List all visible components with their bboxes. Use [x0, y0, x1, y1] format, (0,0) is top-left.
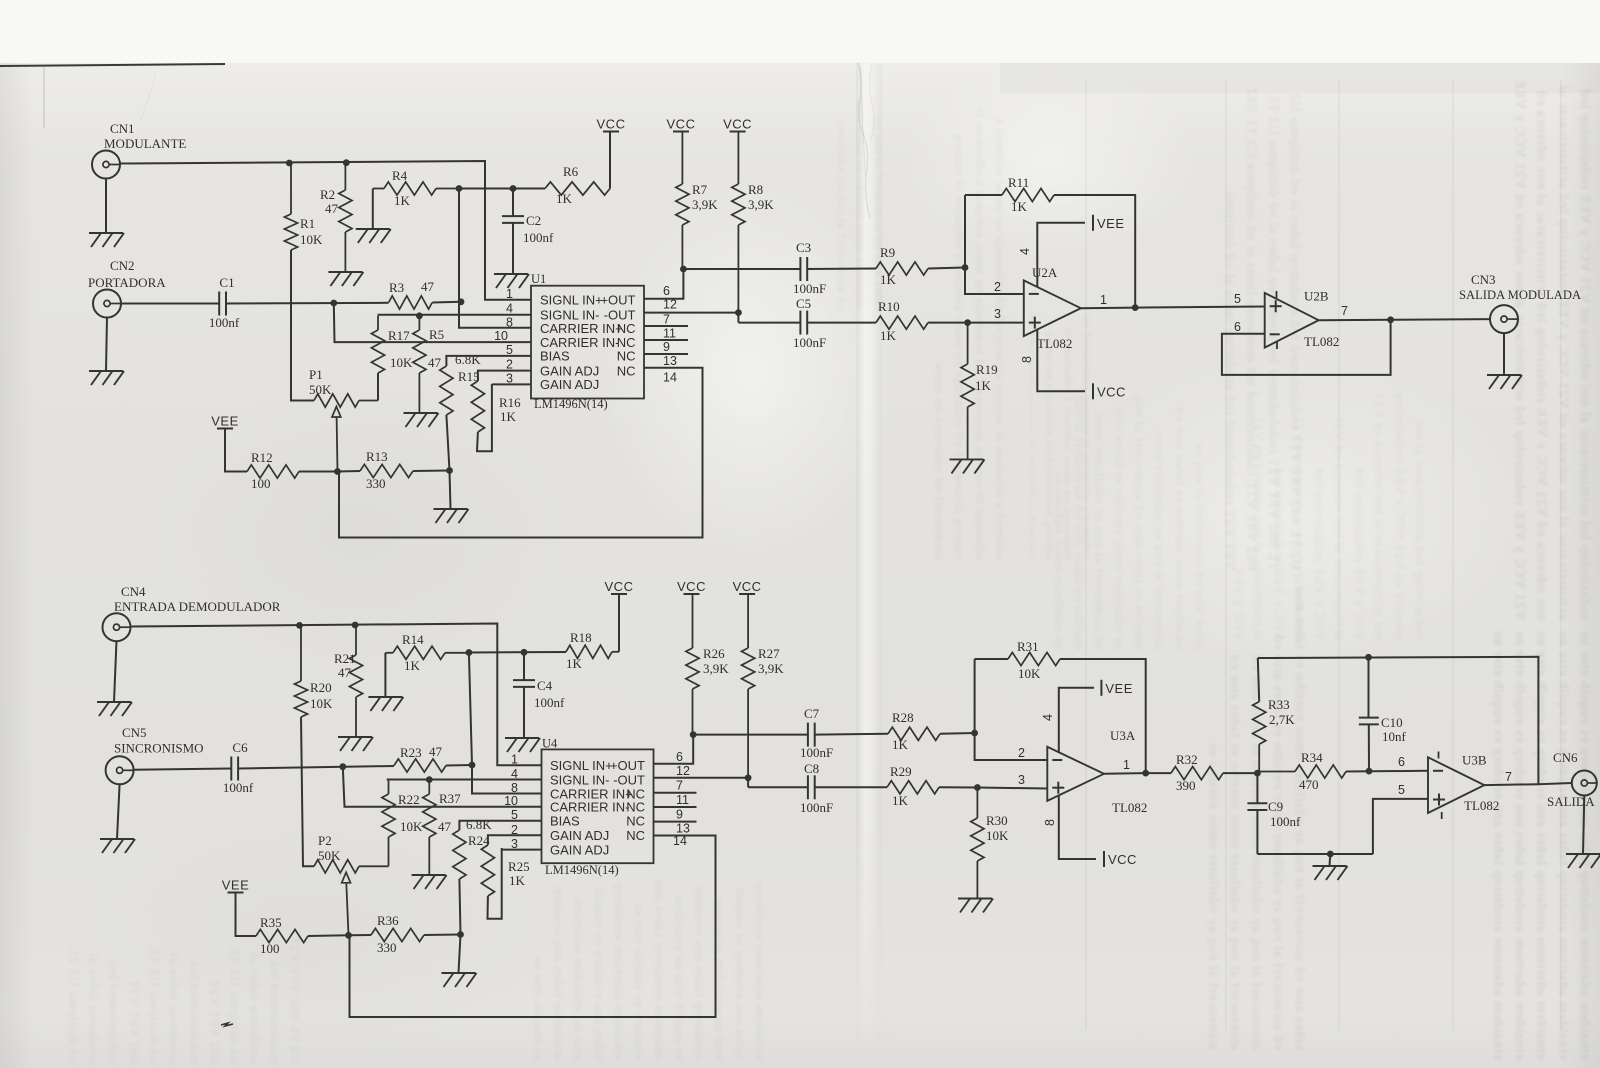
wire U2B feedback [1222, 320, 1391, 375]
label C10 [1381, 715, 1403, 730]
svg-text:3,9K: 3,9K [703, 661, 729, 676]
junction wiper/R12/R13 [334, 468, 341, 475]
label R21 value 47 [338, 665, 352, 680]
U4 pin number 10 [504, 794, 518, 808]
ground at CN3 [1487, 375, 1522, 389]
wire ground lead below R36 [459, 935, 461, 974]
resistor R25 [481, 845, 494, 896]
power VCC above R8 [723, 117, 752, 132]
svg-text:VCC: VCC [1108, 852, 1137, 867]
wire C4 top lead [523, 652, 525, 680]
wire CN5 ground lead [117, 784, 120, 839]
svg-text:+OUT: +OUT [600, 293, 635, 308]
svg-text:1K: 1K [892, 793, 909, 808]
svg-text:GAIN ADJ: GAIN ADJ [540, 377, 599, 392]
label C2 [526, 213, 541, 228]
label R22 value 10K [400, 819, 423, 834]
wire R23 to vertical [446, 764, 472, 767]
svg-text:C8: C8 [804, 761, 819, 776]
label U2A [1032, 265, 1058, 280]
capacitor C10 [1359, 718, 1379, 725]
resistor R15 [440, 366, 453, 415]
U2B pin 5 [1234, 292, 1241, 306]
svg-text:U2A: U2A [1032, 265, 1058, 280]
junction rail/C10 [1365, 654, 1372, 661]
wire feedback up [964, 195, 966, 268]
label R6 [563, 164, 579, 179]
stray pen mark [221, 1023, 233, 1026]
resistor R34 [1257, 765, 1346, 778]
wire U1 pin 6 to C3 line [644, 269, 683, 299]
label R32 [1176, 752, 1198, 767]
wire U2A V- pin to VEE [1037, 223, 1085, 287]
svg-text:CN5: CN5 [122, 725, 147, 740]
svg-text:100: 100 [251, 476, 271, 491]
svg-text:C1: C1 [219, 275, 234, 290]
wire U3A V- pin to VEE [1059, 688, 1094, 753]
resistor R20 [294, 625, 307, 717]
resistor R2 [339, 163, 352, 272]
svg-text:4: 4 [1041, 714, 1055, 721]
potentiometer P1 [314, 394, 378, 407]
wire R18 to VCC [618, 594, 620, 652]
label TL082 U3B [1464, 798, 1499, 813]
U4 row label GAIN ADJ [550, 828, 609, 843]
wire R11 rail right [1054, 195, 1135, 308]
U1 row label CARRIER IN- [540, 335, 619, 350]
svg-text:VEE: VEE [1105, 681, 1133, 696]
ground at C4 [505, 738, 540, 752]
wire C7 line left [693, 734, 808, 736]
wire U4 pin 11 stub [654, 806, 697, 808]
svg-text:1K: 1K [566, 656, 583, 671]
resistor R18 [566, 645, 619, 658]
power VCC above R18 [605, 579, 634, 594]
svg-text:GAIN ADJ: GAIN ADJ [550, 828, 609, 843]
ground at R14 [368, 697, 403, 711]
label R17 [388, 328, 410, 343]
U1 pin number 11 [663, 327, 676, 341]
svg-text:6: 6 [1398, 755, 1405, 769]
wire R15 bottom [446, 415, 449, 471]
label R28 [892, 710, 914, 725]
wire R3 to vertical [432, 301, 461, 304]
svg-text:R33: R33 [1268, 697, 1290, 712]
svg-text:8: 8 [511, 781, 518, 795]
U4 row label +OUT [610, 758, 645, 773]
wire U1 pin 2 to R16 [478, 371, 531, 381]
junction R36/R24/ground [457, 931, 464, 938]
label CN2 [110, 258, 135, 273]
label C6 [232, 740, 248, 755]
svg-text:100nF: 100nF [793, 335, 826, 350]
label R9 value 1K [880, 272, 897, 287]
label R24 [468, 833, 490, 848]
svg-text:R6: R6 [563, 164, 579, 179]
ground at CN4 [97, 702, 132, 716]
wire U3A output [1104, 772, 1171, 775]
wire C9 top lead [1256, 773, 1258, 803]
label R2 value 47 [325, 201, 339, 216]
junction rail/pin8 branch b [466, 649, 473, 656]
U4 pin number 9 [676, 808, 683, 822]
label R1 value 10K [300, 232, 323, 247]
U1 row label SIGNL IN+ [540, 293, 603, 308]
ground at R36/R24 [442, 973, 477, 987]
svg-text:R19: R19 [976, 362, 998, 377]
svg-text:330: 330 [366, 476, 386, 491]
svg-text:R14: R14 [402, 632, 424, 647]
svg-text:CN1: CN1 [110, 121, 135, 136]
wire U1 pin 11 stub [644, 339, 688, 341]
U1 pin number 14 [663, 371, 677, 385]
wire C10 bottom lead [1368, 725, 1370, 772]
wire rail to U4 pin 8 [469, 653, 542, 794]
svg-text:7: 7 [676, 779, 683, 793]
label R17 value 10K [390, 355, 413, 370]
U4 pin number 2 [511, 823, 518, 837]
label TL082 U3A [1112, 800, 1147, 815]
svg-text:LM1496N(14): LM1496N(14) [545, 863, 619, 877]
svg-text:NC: NC [626, 800, 645, 815]
svg-text:10K: 10K [400, 819, 423, 834]
junction R34/C10 [1366, 768, 1373, 775]
label P1 value 50K [309, 382, 332, 397]
U4 row label -OUT [613, 772, 645, 787]
label U4 [542, 737, 558, 751]
resistor R3 [389, 296, 433, 309]
ground at R30 [958, 899, 993, 913]
capacitor C7 [808, 723, 815, 747]
label R26 value 3,9K [703, 661, 729, 676]
svg-text:7: 7 [1505, 770, 1512, 784]
svg-text:BIAS: BIAS [550, 814, 580, 829]
U4 row label CARRIER IN+ [550, 786, 633, 801]
label R16 [499, 395, 521, 410]
wire R14 left to ground [384, 653, 386, 697]
junction R3/R4-branch [458, 298, 465, 305]
wire pin12 to C5 line [737, 313, 739, 323]
junction ground rail [1327, 851, 1334, 858]
label R3 [389, 280, 404, 295]
capacitor C2 [502, 216, 524, 223]
junction U2B out/feedback [1387, 316, 1394, 323]
U1 row label +OUT [600, 293, 635, 308]
svg-text:1K: 1K [892, 737, 909, 752]
svg-text:6.8K: 6.8K [455, 352, 481, 367]
wire U4 pin 4 line [387, 779, 542, 781]
wire R10 to U2A plus node [928, 322, 968, 324]
svg-text:TL082: TL082 [1037, 336, 1072, 351]
wire U4 pin 12 to R27 [654, 777, 749, 779]
label C6 value 100nf [223, 780, 254, 795]
label C4 value 100nf [534, 695, 565, 710]
resistor R32 [1171, 767, 1223, 780]
label R11 [1008, 175, 1029, 190]
svg-text:6: 6 [663, 284, 670, 298]
ground at R13/R15 [434, 509, 469, 523]
label R14 [402, 632, 424, 647]
U2B pin 7 [1341, 304, 1348, 318]
label CN6 [1553, 750, 1578, 765]
U3B pin 5 [1398, 783, 1405, 797]
capacitor C9 [1247, 803, 1267, 810]
potentiometer P2 [314, 860, 389, 873]
svg-text:100nF: 100nF [800, 800, 833, 815]
power VEE bottom [222, 878, 250, 893]
U1 pin number 12 [663, 298, 677, 312]
wire C6 to R23 [238, 766, 394, 769]
wire R25 bottom to pin3 branch [488, 848, 502, 919]
resistor R17 [371, 316, 384, 401]
U4 row label BIAS [550, 814, 580, 829]
ground at R19 [950, 459, 985, 473]
label R25 value 1K [509, 873, 526, 888]
op-amp U3A [1047, 747, 1104, 801]
junction R28/feedback [971, 730, 978, 737]
wire R29 to U3A plus node [939, 786, 977, 788]
svg-text:LM1496N(14): LM1496N(14) [534, 397, 608, 411]
svg-text:10K: 10K [1018, 666, 1041, 681]
label R23 [400, 745, 422, 760]
svg-text:6.8K: 6.8K [466, 817, 492, 832]
connector CN2 [93, 290, 121, 318]
resistor R29 [887, 781, 939, 794]
U2A pin 4 digit [1018, 248, 1032, 255]
svg-text:U1: U1 [531, 272, 546, 286]
svg-text:4: 4 [506, 302, 513, 316]
capacitor C6 [231, 757, 238, 781]
wire R13 to ground node [413, 470, 450, 473]
label R31 [1017, 639, 1039, 654]
label R20 value 10K [310, 696, 333, 711]
svg-text:R16: R16 [499, 395, 521, 410]
resistor R23 [394, 759, 446, 772]
svg-text:R12: R12 [251, 450, 273, 465]
junction R8/pin12 [735, 309, 742, 316]
svg-text:1K: 1K [880, 328, 897, 343]
wire CN4 ground lead [114, 641, 117, 702]
wire rail to U1 pin 8 [459, 189, 531, 328]
svg-text:MODULANTE: MODULANTE [104, 136, 186, 151]
label C8 [804, 761, 819, 776]
svg-text:100nf: 100nf [534, 695, 565, 710]
wire R20 to P2 left [301, 717, 314, 866]
U4 row label CARRIER IN- [550, 800, 629, 815]
svg-text:47: 47 [429, 744, 443, 759]
svg-text:3,9K: 3,9K [692, 197, 718, 212]
wire R35 to wiper node [308, 934, 349, 937]
svg-text:100nF: 100nF [800, 745, 833, 760]
svg-text:R8: R8 [748, 182, 763, 197]
wire R28 to U3A inv node [940, 732, 975, 735]
junction R27/pin12 [745, 774, 752, 781]
resistor R21 [349, 625, 362, 737]
svg-text:C10: C10 [1381, 715, 1403, 730]
svg-text:-OUT: -OUT [604, 307, 636, 322]
svg-text:CARRIER IN-: CARRIER IN- [550, 800, 629, 815]
svg-text:CN2: CN2 [110, 258, 135, 273]
svg-text:3,9K: 3,9K [758, 661, 784, 676]
wire CN5 to C6 [133, 769, 231, 770]
ground at R5 [404, 413, 439, 427]
label R30 value 10K [986, 828, 1009, 843]
U1 row label NC [617, 335, 636, 350]
U2B pin 6 [1234, 320, 1241, 334]
op-amp U2B [1265, 293, 1319, 348]
junction R29/R30 [974, 784, 981, 791]
svg-text:VCC: VCC [677, 579, 706, 594]
label R35 [260, 915, 282, 930]
resistor R36 [371, 928, 424, 941]
svg-text:12: 12 [676, 764, 690, 778]
resistor R13 [360, 464, 413, 477]
capacitor C3 [800, 257, 807, 281]
label P2 [318, 833, 332, 848]
svg-text:NC: NC [626, 814, 645, 829]
U1 pin number 4 [506, 302, 513, 316]
label C2 value 100nf [523, 230, 554, 245]
connector CN1 [92, 151, 120, 179]
wire node to R13 [338, 470, 361, 473]
ground at R21 [338, 737, 373, 751]
svg-text:2,7K: 2,7K [1269, 712, 1295, 727]
U1 pin number 7 [663, 313, 670, 327]
label LM1496N(14) [534, 397, 608, 411]
wire U2A V+ pin to VCC [1037, 330, 1085, 391]
wire CN2 ground lead [106, 317, 107, 371]
svg-text:SALIDA: SALIDA [1547, 794, 1595, 809]
label R8 [748, 182, 763, 197]
wire R17 bottom corner [377, 373, 379, 401]
label R2 [320, 187, 335, 202]
resistor R28 [888, 727, 940, 740]
resistor R10 [876, 316, 928, 329]
U4 pin number 6 [676, 750, 683, 764]
svg-text:R35: R35 [260, 915, 282, 930]
svg-text:11: 11 [676, 793, 689, 807]
svg-text:9: 9 [676, 808, 683, 822]
svg-text:C9: C9 [1268, 799, 1283, 814]
wire R16 bottom to pin3 branch [477, 384, 492, 451]
svg-text:10K: 10K [310, 696, 333, 711]
U1 pin number 2 [506, 358, 513, 372]
label R6 value 1K [556, 191, 573, 206]
svg-text:C5: C5 [796, 296, 811, 311]
wire R12 to wiper node [299, 471, 338, 473]
capacitor C8 [808, 775, 815, 799]
svg-text:4: 4 [1018, 248, 1032, 255]
op-amp U1 LM1496 box [531, 286, 644, 399]
junction R10/R19 [964, 319, 971, 326]
svg-text:R31: R31 [1017, 639, 1039, 654]
ground at C2 [494, 274, 529, 288]
svg-text:VCC: VCC [1097, 384, 1126, 399]
junction CN1/R2 [343, 159, 350, 166]
label TL082 U2B [1304, 334, 1339, 349]
label SALIDA MODULADA [1459, 288, 1581, 302]
power VEE at U3A [1101, 680, 1133, 696]
label R11 value 1K [1011, 199, 1028, 214]
wire C9 ground rail [1257, 853, 1373, 855]
label R32 value 390 [1176, 778, 1196, 793]
wire to U2A plus input [968, 322, 1024, 324]
U2A pin 2 [994, 280, 1001, 294]
U1 pin number 1 [506, 287, 513, 301]
wire C8 to R29 [815, 786, 887, 788]
wire R36 to ground node [424, 934, 461, 937]
U3A pin 3 [1018, 773, 1025, 787]
label R29 [890, 764, 912, 779]
wire C4 bottom lead [523, 687, 525, 738]
wire ground lead below R13 [450, 471, 451, 510]
junction CN4/R21 [352, 622, 359, 629]
label ENTRADA DEMODULADOR [114, 599, 281, 614]
label R35 value 100 [260, 941, 280, 956]
svg-text:100nF: 100nF [793, 281, 826, 296]
U1 pin number 10 [494, 329, 508, 343]
label R34 [1301, 750, 1323, 765]
U4 row label NC [626, 800, 645, 815]
wire pin12 to C8 line [747, 778, 749, 788]
svg-text:NC: NC [617, 349, 636, 364]
junction CN1/R1 [286, 160, 293, 167]
wire U1 pin 10 line [334, 303, 531, 342]
svg-text:3: 3 [994, 307, 1001, 321]
resistor R8 [732, 132, 745, 313]
label R7 value 3,9K [692, 197, 718, 212]
wire CN2 to C1 [121, 303, 220, 305]
svg-text:NC: NC [617, 321, 636, 336]
resistor R19 [961, 323, 974, 460]
svg-text:8: 8 [506, 315, 513, 329]
capacitor C1 [219, 292, 226, 316]
svg-text:TL082: TL082 [1304, 334, 1339, 349]
label R25 [508, 859, 530, 874]
label C5 value 100nF [793, 335, 826, 350]
svg-text:2: 2 [506, 358, 513, 372]
svg-text:CARRIER IN+: CARRIER IN+ [540, 321, 623, 336]
label R5 value 47 [428, 355, 442, 370]
label C7 value 100nF [800, 745, 833, 760]
svg-text:330: 330 [377, 940, 397, 955]
svg-text:SIGNL IN+: SIGNL IN+ [540, 293, 603, 308]
svg-text:47: 47 [438, 819, 452, 834]
svg-text:11: 11 [663, 327, 676, 341]
svg-text:VCC: VCC [723, 117, 752, 132]
label CN4 [121, 584, 146, 599]
svg-text:1K: 1K [880, 272, 897, 287]
wire rail R4-C2-R6 [459, 188, 545, 190]
ground at CN5 [100, 839, 135, 853]
label C3 [796, 240, 811, 255]
svg-text:10K: 10K [986, 828, 1009, 843]
label R18 [570, 630, 592, 645]
label R10 [878, 299, 900, 314]
wire U1 pin 12 to R8 [644, 312, 738, 314]
label R33 value 2,7K [1269, 712, 1295, 727]
label U1 [531, 272, 546, 286]
U1 pin number 13 [663, 354, 677, 368]
svg-text:390: 390 [1176, 778, 1196, 793]
svg-text:5: 5 [506, 343, 513, 357]
wire R34 to U3B [1346, 770, 1428, 773]
label R31 value 10K [1018, 666, 1041, 681]
svg-text:3,9K: 3,9K [748, 197, 774, 212]
ground at C9 rail [1313, 866, 1348, 880]
svg-text:8: 8 [1043, 819, 1057, 826]
label R22 [398, 792, 420, 807]
